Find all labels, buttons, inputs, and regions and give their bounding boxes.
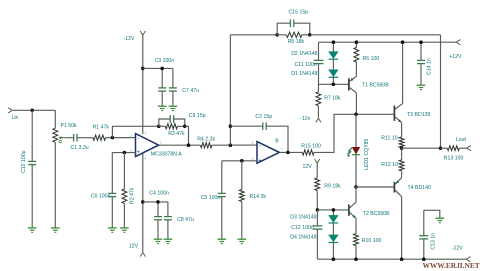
ground C14	[417, 84, 426, 86]
node -12V decoupling	[141, 67, 145, 71]
svg-text:R4 2.2k: R4 2.2k	[197, 136, 215, 142]
node T1 collector / T3 base line	[354, 113, 358, 117]
diode D1 1N4148	[329, 70, 339, 77]
terminal -12V bottom right	[466, 257, 470, 260]
ground P1	[51, 227, 60, 229]
svg-text:-: -	[259, 143, 261, 149]
resistor R11 10	[401, 123, 403, 137]
wire op-amp A output	[159, 144, 201, 146]
transistor T3 BD139	[393, 106, 395, 121]
svg-text:C15 15p: C15 15p	[289, 9, 309, 15]
diode D2 1N4148	[332, 42, 334, 51]
node R2 top	[123, 151, 127, 155]
svg-text:R1 47k: R1 47k	[93, 125, 110, 131]
svg-text:C6 100n: C6 100n	[91, 193, 111, 199]
terminal 12V mid	[315, 159, 318, 163]
node R3 left	[157, 125, 161, 129]
diode D3 1N4148	[332, 210, 334, 216]
wire T4 collector to -12V rail	[401, 197, 403, 260]
resistor R7 18k	[317, 84, 319, 92]
node input junction	[30, 109, 34, 113]
wire R4 to op-amp B inverting input	[212, 144, 257, 146]
resistor R15 100	[302, 150, 314, 155]
capacitor C11 100n	[318, 42, 320, 60]
svg-text:+: +	[258, 158, 261, 164]
ground C5	[218, 238, 227, 240]
wire decoupling branch top	[143, 67, 173, 69]
node op-amp A inverting input	[111, 136, 115, 140]
wire T2 base line	[317, 209, 349, 211]
svg-text:LED1 CQY85: LED1 CQY85	[364, 138, 370, 170]
wire to T4 base	[356, 186, 394, 188]
terminal 12V bottom left	[140, 252, 143, 256]
terminal Lin	[8, 108, 12, 111]
node feedback takeoff	[439, 146, 443, 150]
svg-text:C12 100n: C12 100n	[291, 225, 314, 231]
wire C1 to R1	[77, 137, 93, 139]
svg-text:R7 18k: R7 18k	[324, 95, 341, 101]
svg-text:8: 8	[145, 131, 147, 135]
transistor T4 BD140	[393, 182, 395, 193]
ground C6	[108, 227, 117, 229]
op-amp U1B MC33078N	[257, 142, 279, 164]
svg-text:R14 2k: R14 2k	[250, 194, 267, 200]
svg-text:R13 100: R13 100	[444, 156, 464, 162]
capacitor C1 3.3u	[73, 134, 75, 142]
svg-text:T1 BC560B: T1 BC560B	[362, 82, 389, 88]
wire -12V to op-amp A V- pin	[142, 35, 144, 134]
node C3 top	[160, 67, 164, 71]
svg-text:T3 BD139: T3 BD139	[407, 112, 430, 118]
LED1 CQY85	[355, 114, 357, 147]
svg-text:R9 18k: R9 18k	[324, 183, 341, 189]
op-amp U1A MC33078N	[136, 134, 159, 157]
wire Lin to P1	[13, 109, 55, 111]
terminal -12V top	[140, 31, 143, 35]
wire output node to R13	[402, 147, 441, 149]
svg-text:R12 10: R12 10	[381, 162, 398, 168]
capacitor C14 1n	[420, 42, 422, 60]
transistor T2 BC550B	[348, 205, 350, 216]
wire wiper to C1	[66, 137, 73, 139]
svg-text:C8 47u: C8 47u	[177, 217, 194, 223]
capacitor C7 47u	[172, 68, 174, 87]
svg-text:C2 15p: C2 15p	[255, 114, 272, 120]
node T4 collector rail	[400, 257, 404, 261]
wire T2 collector	[355, 187, 357, 202]
svg-text:C1 3.3u: C1 3.3u	[71, 145, 89, 151]
svg-text:C13 1n: C13 1n	[431, 233, 437, 250]
capacitor C9 15p	[159, 119, 170, 126]
node R10 bottom rail	[354, 257, 358, 261]
wire P1 to ground	[54, 142, 56, 228]
wire feedback riser	[229, 35, 231, 145]
terminal Lout	[467, 146, 471, 149]
resistor R13 100	[441, 147, 448, 149]
ground C10	[28, 227, 37, 229]
wire T3 collector to +12V	[402, 42, 404, 103]
svg-text:R11 10: R11 10	[381, 135, 397, 141]
wire feedback line drop to output node	[440, 35, 442, 148]
capacitor C4 100n	[157, 202, 159, 217]
capacitor C13 1n	[423, 210, 425, 235]
capacitor C8 47u	[167, 202, 169, 217]
wire op-amp A non-inverting input	[112, 152, 135, 154]
resistor R6 100	[355, 42, 357, 47]
svg-text:4: 4	[145, 157, 147, 161]
svg-text:R5 18k: R5 18k	[288, 39, 305, 45]
svg-text:-12V: -12V	[124, 36, 135, 42]
wire main feedback line left	[230, 34, 277, 36]
ground R14	[238, 238, 247, 240]
node R3 right	[183, 125, 187, 129]
node R14 top	[240, 159, 244, 163]
svg-text:P1 50k: P1 50k	[61, 123, 78, 129]
svg-text:R10 100: R10 100	[362, 238, 382, 244]
terminal -12v R7	[316, 118, 319, 122]
wire op-amp B output	[279, 151, 302, 153]
svg-text:C11 100n: C11 100n	[295, 62, 317, 68]
node C14 top	[419, 40, 423, 44]
svg-text:C4 100n: C4 100n	[149, 190, 169, 196]
ground C13	[436, 217, 445, 219]
resistor R2 47k	[123, 153, 125, 189]
resistor R14 2k	[241, 161, 243, 190]
node op-amp A output	[187, 143, 191, 147]
capacitor C2 15p	[230, 125, 262, 127]
ground C3	[158, 105, 167, 107]
svg-text:Lout: Lout	[456, 137, 467, 143]
svg-text:R3 47k: R3 47k	[168, 131, 185, 137]
resistor R3 47k	[159, 125, 166, 127]
node C2 tap	[229, 124, 233, 128]
ground C4	[154, 238, 163, 240]
ground C8	[164, 238, 173, 240]
svg-text:D3 1N4148: D3 1N4148	[290, 215, 316, 221]
svg-text:D2 1N4148: D2 1N4148	[291, 51, 317, 57]
wire feedback to R3	[112, 126, 158, 137]
wire T1 collector	[355, 93, 357, 115]
wire R3 to op-amp A output	[185, 126, 189, 145]
node D3 top	[332, 208, 336, 212]
svg-text:+12V: +12V	[449, 54, 462, 60]
svg-text:12V: 12V	[129, 244, 139, 250]
svg-text:C5 100n: C5 100n	[201, 195, 221, 201]
wire decoupling branch bottom	[143, 201, 168, 203]
node output	[400, 146, 404, 150]
svg-text:C10 100p: C10 100p	[21, 150, 27, 173]
node D4 bottom rail	[332, 257, 336, 261]
resistor R1 47k	[93, 135, 106, 140]
resistor R5 18k	[277, 34, 286, 36]
svg-text:1: 1	[160, 140, 162, 144]
wire op-amp B non-inverting input	[222, 160, 257, 162]
svg-text:Lin: Lin	[12, 115, 19, 121]
svg-text:R2 47k: R2 47k	[130, 187, 136, 204]
svg-text:C7 47u: C7 47u	[182, 88, 199, 94]
node LED bottom / T4 base line	[354, 185, 358, 189]
svg-text:D1 1N4148: D1 1N4148	[291, 71, 317, 77]
LED arrows	[348, 147, 352, 151]
svg-text:C9 15p: C9 15p	[189, 113, 206, 119]
wire R15 right riser	[314, 114, 395, 152]
svg-text:C14 1n: C14 1n	[426, 58, 432, 75]
resistor R12 10	[401, 148, 403, 160]
svg-text:MC33078N A: MC33078N A	[151, 151, 182, 157]
svg-text:12V: 12V	[303, 164, 313, 170]
svg-text:T2 BC550B: T2 BC550B	[363, 211, 390, 217]
svg-text:+: +	[137, 150, 140, 156]
svg-text:B: B	[275, 139, 279, 145]
svg-text:2: 2	[130, 133, 132, 137]
svg-text:T4 BD140: T4 BD140	[408, 185, 431, 191]
capacitor C5 100n	[221, 161, 223, 193]
ground C7	[169, 105, 178, 107]
ground R2	[120, 227, 129, 229]
capacitor C6 100n	[111, 153, 113, 194]
node V+ decoupling	[141, 200, 145, 204]
svg-text:R15 100: R15 100	[301, 143, 321, 149]
wire -12V rail bottom	[317, 258, 466, 260]
capacitor C15 15p	[277, 23, 290, 35]
node D1 bottom	[332, 83, 336, 87]
capacitor C12 100n	[316, 210, 318, 226]
transistor T1 BC560B	[348, 78, 350, 90]
node C4 top	[156, 200, 160, 204]
node feedback tap	[229, 143, 233, 147]
node R5 left	[275, 33, 279, 37]
svg-text:R6 100: R6 100	[363, 56, 380, 62]
resistor R4 2.2k	[201, 143, 212, 148]
node R9 bottom / T2 base line	[316, 208, 320, 212]
node D2 top	[332, 40, 336, 44]
capacitor C3 100n	[161, 68, 163, 87]
resistor R10 100	[355, 218, 357, 233]
node C13 bottom rail	[422, 257, 426, 261]
svg-text:D4 1N4148: D4 1N4148	[290, 234, 316, 240]
svg-text:6: 6	[252, 141, 254, 145]
svg-text:C3 100n: C3 100n	[155, 58, 175, 64]
svg-text:-12v: -12v	[300, 116, 310, 122]
wire C10 branch	[31, 110, 33, 161]
wire main feedback line right	[310, 34, 441, 36]
terminal +12V	[456, 40, 460, 43]
resistor R9 18k	[316, 163, 318, 178]
node R6 top	[355, 40, 359, 44]
diode D4 1N4148	[329, 235, 339, 242]
wire +12V rail	[319, 41, 457, 43]
svg-text:7: 7	[281, 147, 283, 151]
wire diode bottom to T1 base	[319, 83, 349, 85]
capacitor C10 100p	[28, 160, 36, 162]
node T3 collector rail	[401, 40, 405, 44]
svg-text:-: -	[137, 136, 139, 142]
node op-amp B output	[286, 151, 290, 155]
node R5 right	[308, 33, 312, 37]
wire op-amp A V+ pin to 12V	[142, 153, 144, 252]
wire R1 to op-amp A inverting input	[106, 137, 136, 139]
svg-text:-12V: -12V	[452, 246, 463, 252]
svg-text:WWW.ERJI.NET: WWW.ERJI.NET	[423, 261, 480, 270]
potentiometer P1 50k	[54, 110, 56, 128]
